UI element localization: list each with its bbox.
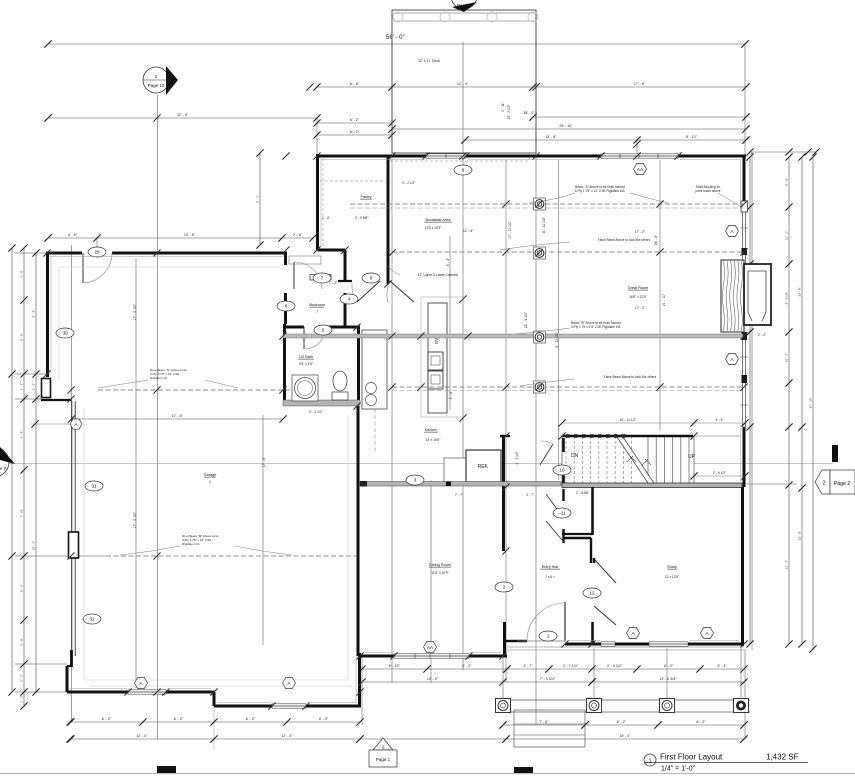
bay window dim: [31, 423, 70, 425]
svg-text:Rigidlam LVL: Rigidlam LVL: [182, 542, 200, 546]
svg-text:1: 1: [547, 634, 550, 639]
svg-text:12" Upper & Lower Cabinets: 12" Upper & Lower Cabinets: [418, 273, 459, 277]
bath door arc: [303, 327, 305, 349]
REF cabinet: [444, 458, 466, 482]
svg-text:12' - 0 3/4": 12' - 0 3/4": [659, 677, 677, 681]
sheet bottom edge: [0, 773, 855, 775]
svg-text:Pantry: Pantry: [361, 195, 372, 199]
garage east wall: [358, 653, 361, 706]
svg-text:17' - 11 1/2": 17' - 11 1/2": [508, 220, 512, 239]
beam A dashed: [350, 203, 743, 205]
window center ticks: [740, 228, 748, 405]
vanity sink: [292, 375, 318, 401]
svg-text:4-Ply 1.75" x 14" 2.0E Rigid: 4-Ply 1.75" x 14" 2.0E Rigidlam LVL: [575, 189, 626, 193]
svg-text:28' - 0": 28' - 0": [619, 734, 631, 738]
svg-text:1' - 6": 1' - 6": [322, 216, 330, 220]
left wing west wall: [46, 253, 49, 377]
east wall block 2: [742, 332, 748, 340]
garage-kitchen wall: [357, 400, 360, 656]
door leaf + arc left wing top: [82, 253, 84, 283]
garage sw bump: [66, 666, 69, 692]
svg-text:4' - 3 1/2": 4' - 3 1/2": [515, 451, 519, 464]
svg-text:12'0 x 10'3": 12'0 x 10'3": [425, 226, 441, 230]
svg-text:9' - 8": 9' - 8": [32, 310, 36, 318]
hex A garage 2: [283, 677, 296, 688]
svg-text:Page 10: Page 10: [148, 83, 165, 88]
garage west wall bottom thick: [70, 650, 73, 667]
svg-text:6' - 0": 6' - 0": [102, 717, 112, 721]
svg-text:9: 9: [462, 168, 465, 173]
false beam dashed 2: [392, 386, 743, 388]
svg-text:32' - 8": 32' - 8": [177, 113, 189, 117]
east window band 2: [742, 332, 744, 427]
hex A porch 1: [627, 627, 640, 638]
svg-text:38' - 0": 38' - 0": [523, 111, 535, 115]
svg-text:1: 1: [209, 480, 211, 484]
pantry west wall: [316, 154, 319, 250]
svg-text:5'5" x 5'5": 5'5" x 5'5": [299, 362, 313, 366]
east wall block 1: [742, 248, 748, 255]
hex A right 2: [726, 353, 739, 364]
svg-text:3' - 7 1/4": 3' - 7 1/4": [563, 664, 579, 668]
svg-text:17' - 6": 17' - 6": [262, 456, 266, 467]
mudroom bench: [310, 275, 331, 281]
crop mark left: [157, 766, 176, 773]
svg-text:7: 7: [316, 310, 318, 314]
entry-study wall: [591, 487, 594, 535]
callout 8: [362, 273, 380, 283]
stair west wall stubs: [562, 438, 565, 452]
dimension left column lines: [11, 248, 13, 692]
svg-text:6' - 2": 6' - 2": [462, 664, 472, 668]
inner wall faces: [50, 157, 741, 703]
svg-text:7 x 8 +: 7 x 8 +: [545, 575, 555, 579]
svg-text:13' x 16'6": 13' x 16'6": [426, 438, 441, 442]
marker page2 right-edge: [832, 445, 838, 462]
svg-text:5: 5: [322, 328, 325, 333]
svg-text:11' - 2": 11' - 2": [785, 231, 789, 240]
svg-text:Dining Room: Dining Room: [429, 563, 451, 567]
laundry dashed chase: [374, 402, 376, 452]
front door: [564, 602, 566, 641]
svg-text:7' - 02": 7' - 02": [20, 508, 24, 517]
svg-text:6' - 10": 6' - 10": [389, 664, 401, 668]
svg-text:12' - 6": 12' - 6": [463, 229, 474, 233]
svg-text:33' - 8": 33' - 8": [798, 287, 802, 296]
double oven: [428, 352, 443, 370]
svg-text:11'6" x 10'9": 11'6" x 10'9": [431, 571, 448, 575]
svg-text:2' - 6 1/2": 2' - 6 1/2": [713, 471, 726, 475]
mudroom door arc: [293, 262, 295, 289]
svg-text:6' - 0": 6' - 0": [174, 717, 184, 721]
dimension 14-8 / 8-10: [465, 139, 746, 141]
svg-text:2: 2: [822, 481, 825, 487]
stair north wall: [562, 435, 693, 437]
svg-text:2: 2: [503, 585, 506, 590]
dimension line 12-0 / 17-6 / 6-6: [317, 86, 746, 88]
marker page9 top-center: [451, 0, 477, 9]
svg-text:3' - 2 1/2": 3' - 2 1/2": [402, 181, 415, 185]
door 4 leaf: [357, 281, 380, 302]
callout 30: [56, 328, 74, 338]
svg-text:16'8" x 22'9": 16'8" x 22'9": [629, 295, 646, 299]
svg-text:2' - 0": 2' - 0": [32, 383, 36, 391]
callout 9: [454, 165, 472, 175]
upper cabinets dashed breakfast: [390, 160, 530, 162]
svg-text:AA: AA: [427, 645, 434, 651]
garage south wall: [67, 691, 128, 694]
slab inset faint outline: [59, 267, 352, 686]
door 8 leaf: [390, 281, 414, 302]
beam B gray band: [283, 334, 743, 338]
svg-text:Kitchen: Kitchen: [425, 428, 438, 432]
svg-text:17' - 6 1/2": 17' - 6 1/2": [133, 511, 137, 528]
svg-text:23' - 6": 23' - 6": [32, 541, 36, 550]
kitchen west counter: [362, 330, 387, 409]
svg-text:29: 29: [94, 250, 100, 255]
svg-text:2' - 2": 2' - 2": [20, 383, 24, 391]
svg-text:1,432 SF: 1,432 SF: [766, 753, 799, 762]
svg-text:13' - 2 1/2": 13' - 2 1/2": [507, 104, 511, 119]
svg-text:False Beam Above to tuck like: False Beam Above to tuck like others: [598, 238, 651, 242]
svg-text:15' - 6": 15' - 6": [184, 233, 196, 237]
svg-text:31: 31: [91, 484, 97, 489]
dimension 4-6 / 15-6 / 2-6 above left wing: [48, 237, 313, 239]
deck railing: [392, 12, 536, 14]
svg-text:14' - 8": 14' - 8": [545, 135, 557, 139]
svg-text:5' - 8": 5' - 8": [20, 431, 24, 439]
svg-text:1/4" = 1'-0": 1/4" = 1'-0": [661, 766, 696, 773]
marker page1 bottom: [373, 738, 393, 750]
svg-text:6' - 2": 6' - 2": [696, 720, 706, 724]
callout 29: [88, 247, 106, 257]
fireplace hatch: [721, 260, 744, 332]
study east wall: [741, 487, 744, 646]
svg-text:6' - 3": 6' - 3": [664, 664, 674, 668]
dimension 38-0: [533, 116, 746, 118]
svg-text:12' - 0": 12' - 0": [136, 734, 148, 738]
svg-text:5' - 2": 5' - 2": [20, 584, 24, 592]
svg-text:–11: –11: [558, 511, 566, 516]
svg-text:12 x 12'6": 12 x 12'6": [665, 575, 679, 579]
closet walls under stairs: [562, 489, 564, 501]
svg-text:7: 7: [321, 276, 324, 281]
window bay west: [42, 379, 51, 398]
fireplace box: [744, 264, 771, 325]
svg-text:3' - 5 3/4": 3' - 5 3/4": [607, 664, 623, 668]
east wall block 3: [742, 375, 748, 383]
kitchen peninsula gray band: [360, 482, 561, 487]
great room east wall top: [743, 157, 746, 207]
svg-text:6' - 6": 6' - 6": [350, 82, 360, 86]
east wall lower thick: [743, 427, 746, 487]
svg-text:6' - 2": 6' - 2": [350, 130, 360, 134]
callout 32: [83, 614, 101, 624]
svg-text:3' - 6": 3' - 6": [449, 390, 453, 399]
svg-text:Study: Study: [667, 565, 677, 569]
svg-text:e 8: e 8: [0, 466, 6, 471]
callout 10: [553, 465, 571, 475]
svg-text:17' - 2": 17' - 2": [635, 230, 646, 234]
svg-text:17' - 6": 17' - 6": [172, 414, 184, 418]
svg-text:8' - 1": 8' - 1": [256, 195, 260, 203]
dimension right column lines: [750, 151, 816, 153]
svg-text:17' - 2": 17' - 2": [635, 306, 645, 310]
garage west wall double thin: [71, 401, 73, 656]
refrigerator: [466, 450, 501, 482]
svg-text:3-Ply 1.75 x 9.5" 2.0E Rigid: 3-Ply 1.75 x 9.5" 2.0E Rigidlam LVL: [571, 325, 622, 329]
stair south rail thick: [562, 483, 742, 488]
svg-text:1: 1: [648, 759, 651, 765]
svg-text:point loads above: point loads above: [696, 189, 721, 193]
dimension 6-2 x2 above pantry: [317, 122, 392, 124]
svg-text:12: 12: [589, 591, 595, 596]
entry jog wall: [503, 622, 506, 656]
svg-text:7' - 6": 7' - 6": [539, 720, 549, 724]
svg-text:REF.: REF.: [478, 464, 489, 470]
svg-text:6: 6: [285, 304, 288, 309]
callout 6: [277, 301, 295, 311]
svg-text:6' - 0": 6' - 0": [319, 717, 329, 721]
svg-text:12' x 11' Deck: 12' x 11' Deck: [418, 59, 440, 63]
svg-text:37' - 10": 37' - 10": [809, 398, 813, 409]
pantry south wall: [318, 249, 346, 252]
svg-text:False Beam Above to tuck like: False Beam Above to tuck like others: [604, 375, 657, 379]
dining south wall: [360, 655, 395, 658]
svg-text:Breakfast Area: Breakfast Area: [426, 218, 452, 222]
left wing top wall: [46, 252, 82, 255]
mudroom n-s hall wall: [344, 250, 347, 281]
dimension 29-10: [392, 128, 746, 130]
stairs: [562, 436, 694, 484]
svg-text:3' - 8": 3' - 8": [20, 638, 24, 646]
svg-text:AA: AA: [637, 167, 644, 173]
pantry shelves dashed: [320, 180, 386, 182]
callout 7: [313, 273, 331, 283]
hex AA top: [634, 163, 647, 174]
svg-text:5' - 8": 5' - 8": [20, 333, 24, 341]
svg-text:17' - 6 1/2": 17' - 6 1/2": [133, 303, 137, 320]
crop mark right: [514, 767, 533, 773]
svg-text:3' - 7": 3' - 7": [526, 493, 534, 497]
svg-text:2' - 0": 2' - 0": [758, 333, 766, 337]
svg-text:DN: DN: [571, 453, 579, 459]
columns great room: [534, 198, 546, 210]
dimension dining front rows: [362, 668, 507, 670]
svg-text:22' - 9 1/2": 22' - 9 1/2": [524, 311, 528, 328]
svg-text:4' - 11 1/2": 4' - 11 1/2": [555, 331, 559, 348]
svg-text:1/2 Bath: 1/2 Bath: [299, 355, 313, 359]
svg-text:8' - 10": 8' - 10": [686, 135, 698, 139]
porch deck lines: [495, 699, 750, 701]
svg-text:17' - 6": 17' - 6": [634, 82, 646, 86]
svg-text:21' - 11": 21' - 11": [662, 293, 666, 306]
svg-text:6' - 0 1/2": 6' - 0 1/2": [309, 410, 322, 414]
closet doors 11: [546, 494, 562, 516]
svg-text:6' - 0": 6' - 0": [246, 717, 256, 721]
svg-text:8' - 11 1/2": 8' - 11 1/2": [542, 216, 546, 233]
dimension porch row: [503, 724, 744, 726]
svg-text:8' - 9": 8' - 9": [785, 178, 789, 186]
marker page10 top-left: [143, 67, 169, 93]
marker page8 left-edge: [0, 447, 9, 477]
mudroom west wall: [284, 253, 287, 265]
callout 1: [539, 631, 557, 641]
solid blocking pocket: [741, 201, 748, 212]
svg-text:29' - 10": 29' - 10": [559, 124, 573, 128]
porch steps: [514, 710, 585, 747]
assorted crossing ticks: [43, 40, 749, 742]
svg-text:6' - 2": 6' - 2": [350, 118, 360, 122]
svg-text:4' - 6": 4' - 6": [68, 233, 78, 237]
svg-text:26' - 8": 26' - 8": [654, 234, 658, 245]
svg-text:56' - 0": 56' - 0": [386, 35, 405, 41]
svg-text:2' - 6": 2' - 6": [293, 233, 303, 237]
svg-text:3' - 9 5/8": 3' - 9 5/8": [355, 216, 368, 220]
hex A porch 2: [701, 627, 714, 638]
svg-text:7' - 7": 7' - 7": [455, 493, 463, 497]
dimension bottom rows garage: [70, 721, 360, 723]
callout 3: [406, 475, 424, 485]
svg-text:Garage: Garage: [204, 473, 217, 477]
door 10 leaf: [540, 444, 553, 465]
svg-text:19' - 8": 19' - 8": [798, 531, 802, 540]
svg-text:2' - 11": 2' - 11": [501, 102, 505, 112]
kitchen-stair wall: [502, 435, 505, 551]
pantry east wall: [387, 156, 390, 284]
svg-text:12' - 0": 12' - 0": [281, 734, 293, 738]
svg-text:8: 8: [370, 276, 373, 281]
drop beam D dashed garage: [98, 389, 290, 391]
svg-text:6' - 2": 6' - 2": [617, 720, 627, 724]
stair break line: [617, 434, 652, 486]
svg-text:3' - 7": 3' - 7": [523, 664, 533, 668]
porch columns: [496, 699, 511, 713]
svg-text:3: 3: [414, 478, 417, 483]
svg-text:7' - 3 3/4": 7' - 3 3/4": [540, 677, 556, 681]
callout 4: [340, 294, 358, 304]
svg-text:2' - 6 5/8": 2' - 6 5/8": [576, 491, 589, 495]
svg-text:4' - 6": 4' - 6": [715, 418, 723, 422]
callout 2: [495, 582, 513, 592]
svg-text:12' - 0": 12' - 0": [457, 82, 469, 86]
great room / breakfast north wall: [318, 155, 426, 158]
svg-text:UP: UP: [688, 454, 696, 460]
bath north wall: [283, 326, 304, 329]
hex AA bottom: [424, 641, 437, 652]
bath south gray wall: [283, 400, 360, 406]
svg-text:12' - 0": 12' - 0": [427, 677, 439, 681]
drop beam B dashed garage: [106, 555, 357, 557]
svg-text:2' - 2": 2' - 2": [20, 674, 24, 682]
svg-text:10: 10: [559, 468, 565, 473]
title block: [644, 754, 656, 766]
svg-text:Page 1: Page 1: [376, 757, 391, 762]
dimension 32-8: [48, 117, 317, 119]
svg-text:9' - 8 1/2": 9' - 8 1/2": [785, 292, 789, 305]
svg-text:7' - 2": 7' - 2": [329, 281, 337, 285]
svg-text:Entry Hall: Entry Hall: [542, 565, 559, 569]
dimension vertical pantry-left: [259, 153, 261, 245]
svg-text:Page 2: Page 2: [834, 481, 851, 487]
hex A garage 1: [135, 677, 148, 688]
callout 5: [314, 325, 332, 335]
dimension study front rows: [507, 668, 744, 670]
svg-text:4: 4: [348, 297, 351, 302]
svg-text:3' - 0": 3' - 0": [20, 270, 24, 278]
study south wall: [565, 643, 601, 646]
svg-text:32: 32: [89, 617, 95, 622]
callout 12: [583, 588, 601, 598]
svg-text:Rigidlam LVL: Rigidlam LVL: [150, 376, 168, 380]
svg-text:21' - 2": 21' - 2": [785, 353, 789, 362]
kitchen island: [421, 297, 463, 417]
svg-text:Great Room: Great Room: [628, 286, 649, 290]
svg-text:4' - 3": 4' - 3": [446, 257, 450, 266]
garage west window: [69, 532, 79, 558]
svg-text:Mudroom: Mudroom: [309, 303, 325, 307]
study door leaves 12: [595, 560, 616, 583]
section cut line across sheet: [0, 463, 833, 465]
svg-text:13' - 2": 13' - 2": [785, 560, 789, 569]
svg-text:First Floor Layout: First Floor Layout: [660, 753, 723, 762]
deck outline: [392, 10, 536, 153]
false beam dashed 1: [392, 251, 743, 253]
svg-text:1' - 2": 1' - 2": [20, 695, 24, 703]
hex A right 1: [726, 225, 739, 236]
svg-text:3' - 3": 3' - 3": [717, 664, 727, 668]
svg-text:10' - 11 1/2": 10' - 11 1/2": [620, 418, 637, 422]
bath east wall: [357, 327, 360, 402]
callout 11: [553, 508, 571, 518]
east window band 1: [742, 207, 744, 264]
svg-text:30: 30: [62, 331, 68, 336]
callout 31: [85, 481, 103, 491]
toilet: [333, 371, 347, 391]
bath west wall: [283, 324, 286, 402]
